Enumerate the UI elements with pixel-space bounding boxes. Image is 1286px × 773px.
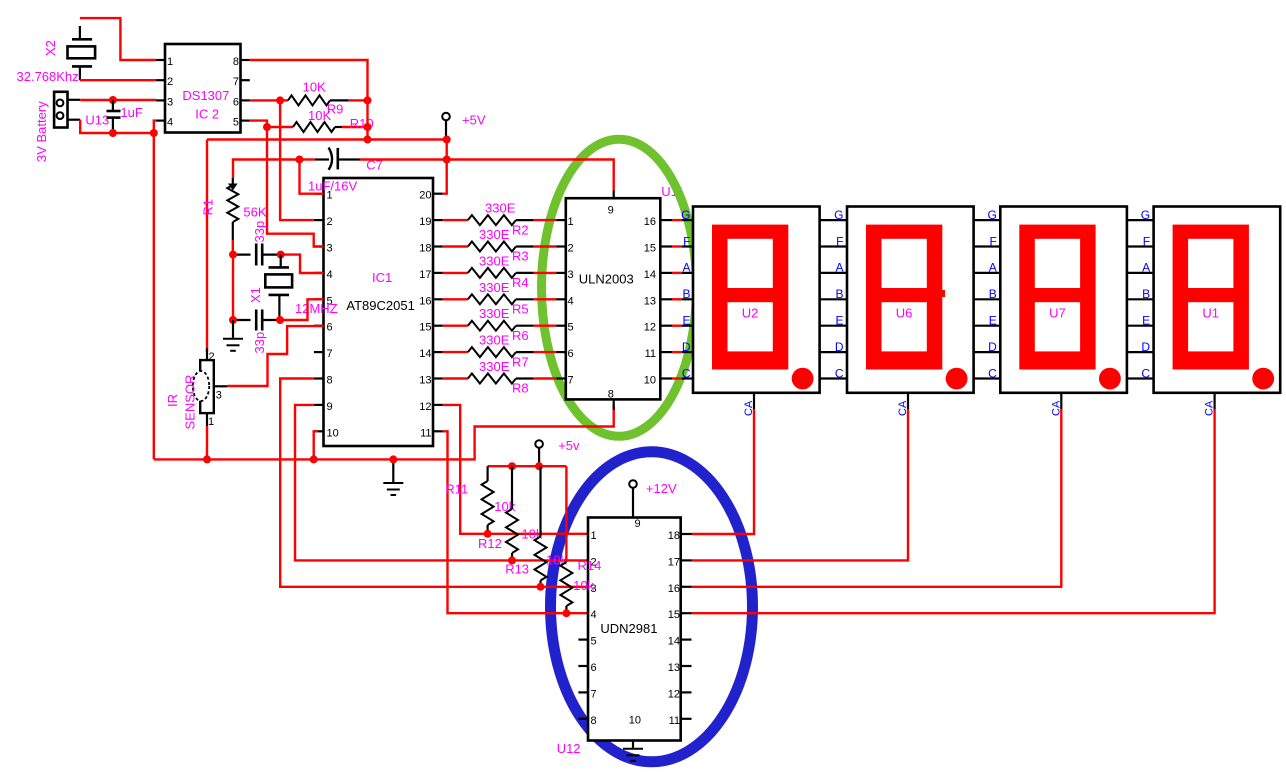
svg-text:1: 1	[167, 56, 173, 68]
svg-text:7: 7	[233, 76, 239, 88]
capacitor 1uF	[107, 100, 121, 133]
svg-text:9: 9	[608, 205, 614, 217]
wires between display U6 and U7	[974, 220, 1001, 378]
resistor R12 10k	[506, 466, 518, 560]
wire UDN2981 pin 17 to U6 CA	[692, 409, 909, 560]
ULN2003 output wires to display U2	[660, 220, 693, 378]
svg-text:2: 2	[167, 76, 173, 88]
capacitor C7 1uF/16V	[303, 148, 360, 170]
junction dot 1uF bottom	[109, 129, 117, 137]
svg-text:4: 4	[167, 117, 173, 129]
svg-text:U7: U7	[1049, 305, 1066, 320]
junction dot R9 right	[364, 96, 372, 104]
svg-text:UDN2981: UDN2981	[600, 621, 657, 636]
resistor R3 330E	[443, 242, 557, 252]
svg-text:R14: R14	[578, 558, 602, 573]
svg-text:2: 2	[568, 243, 574, 255]
junction dot 33p lower right	[276, 316, 284, 324]
svg-text:R2: R2	[512, 222, 529, 237]
display U6 CA pin stub	[907, 393, 909, 409]
display U1 decimal point	[1252, 368, 1274, 390]
display U7 CA pin stub	[1060, 393, 1062, 409]
svg-text:+5V: +5V	[462, 113, 486, 128]
svg-text:D: D	[835, 340, 844, 354]
junction dot battery/1uF top	[109, 96, 117, 104]
svg-text:IR: IR	[165, 394, 180, 407]
display U2 CA pin stub	[753, 393, 755, 409]
svg-text:5: 5	[591, 636, 597, 648]
svg-text:U1: U1	[1202, 305, 1219, 320]
svg-text:3: 3	[216, 390, 222, 402]
7-segment display U6 body	[847, 207, 974, 393]
resistor R4 330E	[443, 268, 557, 278]
DS1307 pin stubs	[156, 60, 250, 121]
wire IC1 pin 9 to UDN2981 pin 2	[295, 405, 588, 561]
svg-text:13: 13	[644, 295, 656, 307]
svg-text:R5: R5	[512, 302, 529, 317]
svg-text:IC1: IC1	[372, 270, 392, 285]
svg-text:E: E	[835, 314, 843, 328]
wires between display U2 and U6	[820, 220, 847, 378]
ground rail wire	[154, 406, 614, 459]
svg-text:U2: U2	[742, 305, 759, 320]
wire crystal bottom to IC1 pin 5	[280, 299, 324, 320]
svg-text:12: 12	[419, 401, 431, 413]
svg-text:17: 17	[668, 556, 680, 568]
junction dot 33p upper left	[229, 251, 237, 259]
junction dot ground symbol on rail	[389, 455, 397, 463]
svg-text:E: E	[682, 314, 690, 328]
svg-text:8: 8	[327, 375, 333, 387]
wire UDN2981 pin 15 to U1 CA	[692, 409, 1215, 613]
resistor R10 10K	[267, 122, 364, 132]
display U7 figure-8 segments	[1019, 225, 1095, 370]
svg-text:13: 13	[668, 662, 680, 674]
capacitor 33p lower	[233, 310, 280, 331]
svg-text:2: 2	[209, 351, 215, 363]
wire DS1307 pin 8 to +5V rail	[250, 60, 368, 140]
svg-text:5: 5	[568, 322, 574, 334]
svg-text:B: B	[682, 287, 690, 301]
svg-text:330E: 330E	[479, 253, 510, 268]
svg-text:330E: 330E	[479, 333, 510, 348]
svg-text:14: 14	[644, 269, 656, 281]
svg-text:3: 3	[568, 269, 574, 281]
wire sensor pin 1 to ground rail	[206, 426, 208, 459]
svg-text:R8: R8	[512, 381, 529, 396]
svg-text:33p: 33p	[252, 332, 267, 354]
svg-text:4: 4	[591, 609, 597, 621]
svg-text:19: 19	[419, 216, 431, 228]
svg-text:18: 18	[419, 243, 431, 255]
junction dot pin8 vertical on +5V rail	[364, 136, 372, 144]
svg-text:330E: 330E	[479, 306, 510, 321]
svg-text:11: 11	[669, 715, 680, 727]
svg-text:6: 6	[327, 322, 333, 334]
junction dot R12 top	[508, 462, 516, 470]
wire +5V to IC1 pin 20	[443, 140, 447, 194]
IC DS1307 (IC 2) body	[165, 44, 241, 133]
svg-text:6: 6	[233, 96, 239, 108]
svg-text:330E: 330E	[479, 227, 510, 242]
svg-text:12: 12	[644, 322, 656, 334]
svg-text:G: G	[1141, 208, 1150, 222]
svg-text:B: B	[835, 287, 843, 301]
resistor R6 330E	[443, 321, 557, 331]
svg-text:6: 6	[591, 662, 597, 674]
svg-text:R1: R1	[201, 199, 216, 216]
junction dot 33p upper right	[277, 251, 285, 259]
UDN2981 pin 10 ground	[623, 741, 643, 761]
svg-text:R6: R6	[512, 328, 529, 343]
wire branch down to IC1 pin 1	[300, 160, 324, 194]
svg-text:32.768Khz: 32.768Khz	[17, 69, 79, 84]
wire DS1307 pin 6 node down to IC1 pin 2	[250, 100, 314, 220]
7-segment display U1 body	[1154, 207, 1281, 393]
wire 33p left vertical to lower cap	[232, 255, 234, 320]
svg-text:AT89C2051: AT89C2051	[346, 298, 414, 313]
junction dot DS1307 pin4 node	[150, 129, 158, 137]
svg-text:G: G	[987, 208, 996, 222]
UDN2981 body U12	[588, 518, 681, 741]
ULN2003 left pin stubs	[556, 220, 566, 378]
+5v power symbol lower	[535, 440, 543, 466]
svg-text:10: 10	[644, 375, 656, 387]
wire IC1 pin 12 to UDN2981 pin 1	[443, 405, 588, 534]
svg-text:+12V: +12V	[646, 481, 677, 496]
svg-text:1: 1	[568, 216, 574, 228]
svg-text:X2: X2	[43, 40, 58, 56]
svg-text:G: G	[834, 208, 843, 222]
svg-text:12MHZ: 12MHZ	[295, 301, 338, 316]
svg-text:9: 9	[327, 401, 333, 413]
svg-text:17: 17	[419, 269, 431, 281]
svg-text:10K: 10K	[303, 80, 326, 95]
wire IC1 pin 11 to UDN2981 pin 4	[443, 431, 588, 613]
svg-text:7: 7	[591, 688, 597, 700]
svg-text:A: A	[835, 261, 843, 275]
junction dot R12 bottom	[508, 556, 516, 564]
IC1 AT89C2051 body	[324, 178, 434, 446]
svg-text:E: E	[1142, 314, 1150, 328]
display U6 decimal point	[946, 368, 968, 390]
DS1307 pin numbers	[167, 56, 239, 129]
svg-text:A: A	[989, 261, 997, 275]
IR sensor body	[193, 348, 228, 426]
stray red mark at U6 right edge	[941, 290, 946, 297]
+5V rail wire	[207, 138, 447, 140]
UDN2981 left pin stubs	[578, 640, 588, 719]
wires between display U7 and U1	[1127, 220, 1154, 378]
svg-text:10: 10	[327, 427, 339, 439]
svg-text:U6: U6	[896, 305, 913, 320]
svg-text:IC 2: IC 2	[195, 106, 219, 121]
+12V power symbol	[629, 480, 637, 517]
capacitor 33p upper	[233, 244, 281, 266]
svg-text:C: C	[988, 366, 997, 380]
svg-text:D: D	[682, 340, 691, 354]
svg-text:8: 8	[608, 389, 614, 401]
+5v rail for pullups	[488, 465, 567, 467]
svg-text:3V Battery: 3V Battery	[34, 101, 49, 162]
wire IC1 pin 8 to UDN2981 pin 3	[280, 379, 588, 587]
junction dot pin6/R9	[276, 96, 284, 104]
resistor R7 330E	[443, 347, 557, 357]
svg-text:F: F	[683, 234, 690, 248]
svg-text:13: 13	[419, 375, 431, 387]
junction dot sensor on ground rail	[203, 455, 211, 463]
svg-text:1uF: 1uF	[120, 105, 142, 120]
svg-text:R13: R13	[505, 562, 529, 577]
resistor R14 10k	[560, 466, 572, 613]
junction dot R13 bottom	[537, 583, 545, 591]
junction dot R11 bottom	[484, 530, 492, 538]
svg-text:1: 1	[591, 530, 597, 542]
svg-text:330E: 330E	[479, 280, 510, 295]
IC1 pin stubs	[314, 194, 443, 432]
svg-text:B: B	[989, 287, 997, 301]
svg-text:15: 15	[419, 322, 431, 334]
ULN2003 pin 9 stub	[613, 191, 615, 199]
svg-text:+5v: +5v	[558, 438, 580, 453]
wire DS1307 pin 5 node down to IC1 pin 3	[250, 121, 324, 247]
crystal X1 12MHz	[265, 255, 292, 320]
battery connector U13 (3V battery)	[54, 92, 80, 128]
svg-text:B: B	[1142, 287, 1150, 301]
wire UDN2981 pin 18 to U2 CA	[692, 409, 755, 534]
UDN2981 pin numbers	[591, 518, 681, 727]
svg-text:F: F	[1143, 234, 1150, 248]
svg-text:X1: X1	[248, 287, 263, 303]
svg-text:G: G	[681, 208, 690, 222]
resistor R5 330E	[443, 294, 557, 304]
display U1 figure-8 segments	[1173, 225, 1249, 370]
wire UDN2981 pin 16 to U7 CA	[692, 409, 1062, 587]
segment letter labels left of U2	[681, 208, 691, 380]
svg-text:2: 2	[327, 216, 333, 228]
svg-text:14: 14	[419, 348, 431, 360]
svg-text:10K: 10K	[308, 108, 331, 123]
display U7 decimal point	[1099, 368, 1121, 390]
wire battery minus to bottom node	[80, 120, 154, 133]
svg-text:F: F	[989, 234, 996, 248]
svg-text:3: 3	[591, 583, 597, 595]
7-segment display U7 body	[1000, 207, 1127, 393]
svg-text:2: 2	[591, 556, 597, 568]
svg-text:56K: 56K	[243, 205, 266, 220]
svg-text:8: 8	[591, 715, 597, 727]
svg-text:C: C	[682, 366, 691, 380]
svg-text:F: F	[836, 234, 843, 248]
svg-text:18: 18	[668, 530, 680, 542]
junction dot +5v stem	[535, 462, 543, 470]
svg-text:16: 16	[668, 583, 680, 595]
svg-text:R3: R3	[512, 249, 529, 264]
7-segment display U2 body	[693, 207, 820, 393]
svg-text:7: 7	[568, 375, 574, 387]
svg-text:4: 4	[568, 295, 574, 307]
ULN2003 body U11	[566, 198, 661, 399]
display U2 decimal point	[792, 368, 814, 390]
svg-text:3: 3	[167, 96, 173, 108]
svg-text:R11: R11	[445, 482, 468, 497]
svg-text:15: 15	[644, 243, 656, 255]
svg-text:A: A	[682, 261, 690, 275]
wire +5V rail down to IR sensor pin 2	[206, 140, 208, 353]
svg-text:R12: R12	[478, 536, 502, 551]
display U1 CA pin stub	[1213, 393, 1215, 409]
junction dot R10 right	[364, 123, 372, 131]
junction dot R14 bottom	[562, 609, 570, 617]
svg-text:8: 8	[233, 56, 239, 68]
UDN2981 right pin stubs	[681, 534, 692, 719]
resistor R1 56K	[227, 178, 238, 255]
svg-text:7: 7	[327, 348, 333, 360]
wire battery plus to DS1307 pin 3	[80, 99, 156, 101]
svg-text:SENSOR: SENSOR	[183, 375, 198, 430]
resistor R11 10k	[482, 466, 494, 534]
junction dot C7 line	[443, 156, 451, 164]
blue highlight ellipse around UDN2981	[551, 452, 753, 762]
resistor R8 330E	[443, 374, 557, 384]
svg-text:11: 11	[645, 348, 656, 360]
svg-text:330E: 330E	[485, 201, 516, 216]
wire X2 bottom to DS1307 pin 2	[80, 79, 156, 81]
svg-text:D: D	[1141, 340, 1150, 354]
svg-text:C: C	[1141, 366, 1150, 380]
resistor R9 10K	[283, 95, 364, 105]
svg-text:14: 14	[668, 636, 680, 648]
svg-text:330E: 330E	[479, 359, 510, 374]
crystal X2	[68, 26, 96, 80]
svg-text:C: C	[835, 366, 844, 380]
svg-text:R7: R7	[512, 354, 529, 369]
ground symbol below 33p caps	[223, 320, 243, 351]
svg-text:E: E	[989, 314, 997, 328]
+5V power symbol	[442, 113, 450, 140]
svg-text:DS1307: DS1307	[182, 88, 229, 103]
svg-text:16: 16	[644, 216, 656, 228]
svg-text:33p: 33p	[252, 221, 267, 243]
svg-text:4: 4	[327, 269, 333, 281]
wire X2 top to DS1307 pin 1	[80, 18, 156, 60]
green highlight ellipse around ULN2003	[542, 139, 697, 436]
ground symbol on rail	[383, 459, 403, 495]
segment letter labels left of U6	[834, 208, 844, 380]
junction dot 33p lower left	[229, 316, 237, 324]
junction dot pin5/R10	[263, 123, 271, 131]
resistor R2 330E	[443, 215, 557, 225]
svg-text:9: 9	[635, 518, 641, 530]
wire C7 line left to R1 top	[233, 160, 300, 179]
resistor R13 10k	[535, 466, 547, 587]
wire crystal node to IC1 pin 4	[281, 255, 324, 273]
svg-text:5: 5	[233, 117, 239, 129]
wire DS1307 pin 4 to ground rail (long vertical)	[154, 121, 156, 460]
segment letter labels left of U1	[1141, 208, 1151, 380]
svg-text:R4: R4	[512, 275, 529, 290]
svg-text:U12: U12	[557, 741, 581, 756]
display U2 figure-8 segments	[712, 225, 788, 370]
junction dot C7 left / IC1 pin1 branch	[296, 156, 304, 164]
svg-text:3: 3	[327, 243, 333, 255]
svg-text:10: 10	[629, 715, 641, 727]
svg-text:16: 16	[419, 295, 431, 307]
svg-text:11: 11	[420, 427, 431, 439]
display U6 figure-8 segments	[866, 225, 942, 370]
svg-text:12: 12	[668, 688, 680, 700]
svg-text:6: 6	[568, 348, 574, 360]
svg-text:10k: 10k	[546, 553, 567, 568]
IC1 pin numbers	[327, 190, 432, 440]
svg-text:1uF/16V: 1uF/16V	[308, 178, 357, 193]
junction dot +5V rail / pin20 branch	[443, 136, 451, 144]
svg-text:U13: U13	[85, 112, 109, 127]
svg-text:D: D	[988, 340, 997, 354]
wire sensor pin 3 to IC1 pin 6 staircase	[227, 326, 323, 386]
svg-text:15: 15	[668, 609, 680, 621]
svg-text:20: 20	[419, 190, 431, 202]
svg-text:1: 1	[208, 416, 214, 428]
ULN2003 pin numbers	[568, 205, 657, 401]
wire IC1 pin 10 to ground rail	[314, 431, 318, 459]
svg-text:ULN2003: ULN2003	[579, 271, 634, 286]
segment letter labels left of U7	[987, 208, 997, 380]
wire C7 right to ULN2003 pin 9	[360, 160, 614, 191]
junction dot IC1 pin10 on rail	[310, 455, 318, 463]
svg-text:A: A	[1142, 261, 1150, 275]
ULN2003 pin 8 stub to ground path	[613, 399, 615, 410]
